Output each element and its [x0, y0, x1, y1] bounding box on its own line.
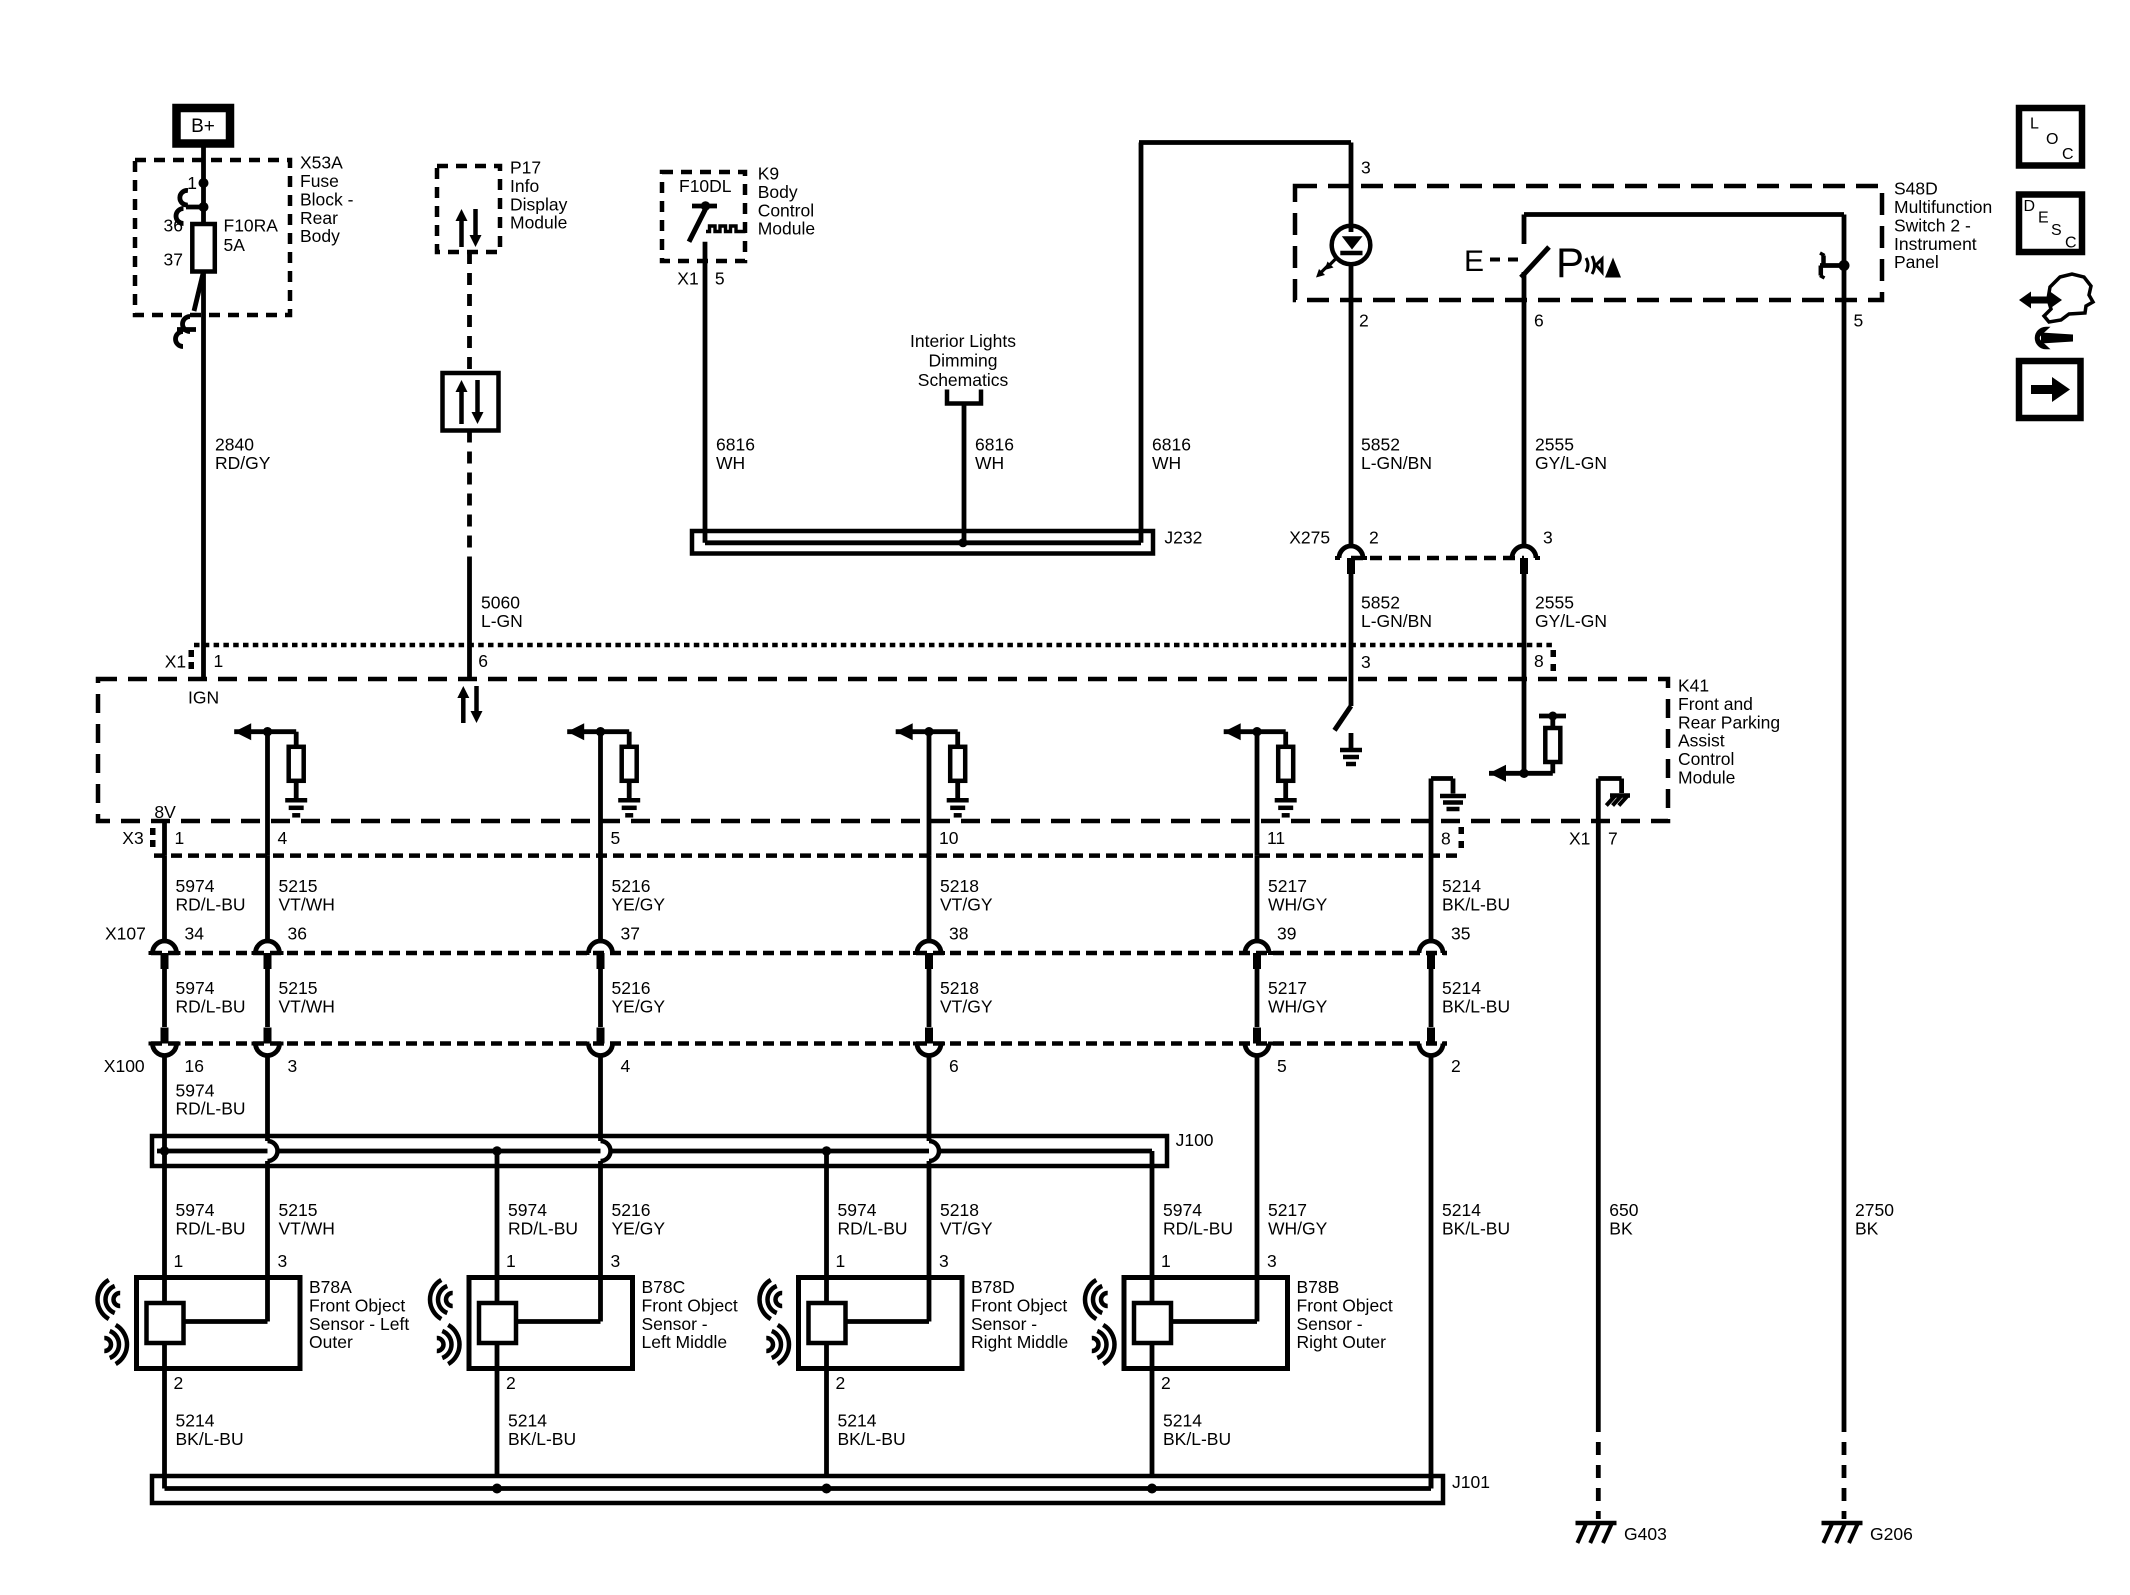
svg-text:Panel: Panel [1894, 252, 1939, 272]
svg-text:5214: 5214 [1163, 1410, 1202, 1430]
svg-text:Block -: Block - [300, 189, 354, 209]
svg-text:Body: Body [758, 182, 798, 202]
svg-text:VT/WH: VT/WH [279, 1218, 335, 1238]
svg-text:5: 5 [1277, 1056, 1287, 1076]
svg-text:Control: Control [758, 200, 814, 220]
svg-text:1: 1 [1161, 1251, 1171, 1271]
svg-text:BK: BK [1609, 1218, 1633, 1238]
svg-text:10: 10 [939, 828, 959, 848]
svg-text:X100: X100 [104, 1056, 145, 1076]
svg-text:3: 3 [1267, 1251, 1277, 1271]
svg-text:2555: 2555 [1535, 435, 1574, 455]
svg-text:1: 1 [214, 651, 224, 671]
svg-text:34: 34 [185, 923, 205, 943]
svg-text:Outer: Outer [309, 1332, 353, 1352]
svg-text:5215: 5215 [279, 1200, 318, 1220]
svg-text:RD/L-BU: RD/L-BU [176, 1099, 246, 1119]
svg-text:RD/L-BU: RD/L-BU [1163, 1218, 1233, 1238]
svg-text:B78A: B78A [309, 1277, 352, 1297]
svg-text:38: 38 [949, 923, 968, 943]
svg-text:39: 39 [1277, 923, 1296, 943]
svg-text:BK/L-BU: BK/L-BU [838, 1429, 906, 1449]
svg-text:5217: 5217 [1268, 876, 1307, 896]
svg-text:5214: 5214 [1442, 876, 1481, 896]
svg-text:Schematics: Schematics [918, 370, 1009, 390]
svg-text:5216: 5216 [612, 1200, 651, 1220]
svg-text:BK/L-BU: BK/L-BU [1163, 1429, 1231, 1449]
svg-text:L: L [2030, 116, 2039, 133]
svg-text:X1: X1 [165, 652, 186, 672]
svg-text:1: 1 [187, 173, 197, 193]
svg-text:B78C: B78C [642, 1277, 686, 1297]
svg-text:B78D: B78D [971, 1277, 1015, 1297]
svg-text:RD/L-BU: RD/L-BU [838, 1218, 908, 1238]
svg-text:5974: 5974 [1163, 1200, 1202, 1220]
svg-text:16: 16 [185, 1056, 204, 1076]
svg-text:F10DL: F10DL [679, 176, 732, 196]
svg-text:Right Middle: Right Middle [971, 1332, 1068, 1352]
svg-text:Assist: Assist [1678, 731, 1725, 751]
svg-text:Sensor -: Sensor - [642, 1314, 708, 1334]
svg-text:Right Outer: Right Outer [1297, 1332, 1387, 1352]
svg-text:S: S [2051, 222, 2062, 239]
svg-text:3: 3 [278, 1251, 288, 1271]
svg-text:5218: 5218 [940, 978, 979, 998]
svg-text:36: 36 [164, 215, 183, 235]
svg-text:RD/GY: RD/GY [215, 453, 271, 473]
svg-text:8V: 8V [154, 802, 176, 822]
svg-text:WH/GY: WH/GY [1268, 996, 1328, 1016]
svg-text:5974: 5974 [838, 1200, 877, 1220]
svg-text:4: 4 [621, 1056, 631, 1076]
svg-text:2555: 2555 [1535, 593, 1574, 613]
svg-text:RD/L-BU: RD/L-BU [176, 1218, 246, 1238]
svg-text:2: 2 [506, 1373, 516, 1393]
svg-text:WH: WH [975, 453, 1004, 473]
svg-text:F10RA: F10RA [224, 216, 279, 236]
svg-text:5060: 5060 [481, 593, 520, 613]
svg-text:S48D: S48D [1894, 179, 1938, 199]
svg-text:K9: K9 [758, 164, 779, 184]
svg-text:O: O [2046, 131, 2058, 148]
svg-text:E: E [2038, 210, 2049, 227]
svg-text:1: 1 [506, 1251, 516, 1271]
svg-text:X1: X1 [677, 268, 698, 288]
svg-text:L-GN/BN: L-GN/BN [1361, 611, 1432, 631]
svg-text:5216: 5216 [612, 978, 651, 998]
svg-text:Front Object: Front Object [1297, 1295, 1393, 1315]
svg-text:B+: B+ [191, 116, 215, 137]
svg-text:Multifunction: Multifunction [1894, 197, 1992, 217]
svg-text:Switch 2 -: Switch 2 - [1894, 215, 1971, 235]
svg-text:Control: Control [1678, 749, 1734, 769]
svg-text:4: 4 [278, 828, 288, 848]
svg-text:5214: 5214 [1442, 1200, 1481, 1220]
svg-text:2: 2 [1369, 528, 1379, 548]
svg-text:D: D [2024, 198, 2036, 215]
svg-text:Module: Module [1678, 768, 1735, 788]
svg-text:Sensor -: Sensor - [971, 1314, 1037, 1334]
svg-text:X1: X1 [1569, 829, 1590, 849]
svg-text:P: P [1556, 239, 1584, 286]
svg-text:Front Object: Front Object [971, 1295, 1067, 1315]
svg-text:VT/GY: VT/GY [940, 996, 993, 1016]
svg-text:5974: 5974 [176, 1080, 215, 1100]
svg-text:Instrument: Instrument [1894, 234, 1977, 254]
svg-text:P17: P17 [510, 158, 541, 178]
svg-text:BK: BK [1855, 1218, 1879, 1238]
svg-text:Interior Lights: Interior Lights [910, 331, 1016, 351]
svg-text:Info: Info [510, 176, 539, 196]
svg-text:5974: 5974 [176, 978, 215, 998]
svg-text:6: 6 [949, 1056, 959, 1076]
svg-text:3: 3 [1361, 652, 1371, 672]
svg-text:VT/WH: VT/WH [279, 996, 335, 1016]
svg-text:6: 6 [1534, 311, 1544, 331]
svg-text:WH/GY: WH/GY [1268, 894, 1328, 914]
svg-text:WH/GY: WH/GY [1268, 1218, 1328, 1238]
svg-text:6816: 6816 [975, 435, 1014, 455]
svg-text:VT/WH: VT/WH [279, 894, 335, 914]
svg-text:Body: Body [300, 226, 340, 246]
svg-text:YE/GY: YE/GY [612, 1218, 666, 1238]
svg-text:3: 3 [288, 1056, 298, 1076]
svg-text:Sensor -: Sensor - [1297, 1314, 1363, 1334]
svg-text:Rear: Rear [300, 208, 338, 228]
svg-text:8: 8 [1441, 828, 1451, 848]
svg-text:11: 11 [1267, 828, 1285, 848]
svg-text:1: 1 [174, 1251, 184, 1271]
svg-text:3: 3 [939, 1251, 949, 1271]
svg-text:RD/L-BU: RD/L-BU [508, 1218, 578, 1238]
svg-text:Left Middle: Left Middle [642, 1332, 728, 1352]
svg-text:5214: 5214 [508, 1410, 547, 1430]
svg-text:X107: X107 [105, 923, 146, 943]
svg-text:GY/L-GN: GY/L-GN [1535, 611, 1607, 631]
svg-text:Module: Module [510, 213, 567, 233]
svg-text:3: 3 [1543, 528, 1553, 548]
svg-text:2: 2 [1451, 1056, 1461, 1076]
svg-text:5217: 5217 [1268, 1200, 1307, 1220]
svg-text:37: 37 [164, 250, 183, 270]
svg-text:GY/L-GN: GY/L-GN [1535, 453, 1607, 473]
svg-text:2: 2 [174, 1373, 184, 1393]
svg-text:5214: 5214 [1442, 978, 1481, 998]
svg-text:Front and: Front and [1678, 694, 1753, 714]
svg-text:2750: 2750 [1855, 1200, 1894, 1220]
svg-text:Display: Display [510, 194, 568, 214]
svg-text:5: 5 [611, 828, 621, 848]
svg-text:BK/L-BU: BK/L-BU [508, 1429, 576, 1449]
svg-text:BK/L-BU: BK/L-BU [176, 1429, 244, 1449]
svg-text:Front Object: Front Object [642, 1295, 738, 1315]
svg-text:Fuse: Fuse [300, 171, 339, 191]
svg-text:Front Object: Front Object [309, 1295, 405, 1315]
svg-text:6816: 6816 [716, 435, 755, 455]
svg-text:8: 8 [1534, 651, 1544, 671]
svg-text:1: 1 [836, 1251, 846, 1271]
svg-text:5216: 5216 [612, 876, 651, 896]
svg-text:YE/GY: YE/GY [612, 894, 666, 914]
svg-text:Sensor - Left: Sensor - Left [309, 1314, 409, 1334]
svg-text:VT/GY: VT/GY [940, 1218, 993, 1238]
svg-text:5852: 5852 [1361, 435, 1400, 455]
svg-text:5214: 5214 [838, 1410, 877, 1430]
svg-text:IGN: IGN [188, 687, 219, 707]
svg-text:Dimming: Dimming [928, 351, 997, 371]
svg-text:3: 3 [1361, 158, 1371, 178]
svg-text:RD/L-BU: RD/L-BU [176, 996, 246, 1016]
svg-text:X53A: X53A [300, 153, 343, 173]
svg-text:5214: 5214 [176, 1410, 215, 1430]
svg-text:5974: 5974 [176, 876, 215, 896]
svg-text:2840: 2840 [215, 435, 254, 455]
svg-text:K41: K41 [1678, 676, 1709, 696]
svg-text:5A: 5A [224, 235, 246, 255]
svg-text:X275: X275 [1289, 528, 1330, 548]
svg-text:J100: J100 [1176, 1130, 1214, 1150]
svg-text:Module: Module [758, 219, 815, 239]
svg-text:L-GN: L-GN [481, 611, 523, 631]
svg-text:5218: 5218 [940, 876, 979, 896]
svg-text:C: C [2065, 235, 2077, 252]
svg-text:37: 37 [621, 923, 640, 943]
svg-text:1: 1 [175, 828, 185, 848]
svg-text:36: 36 [288, 923, 307, 943]
svg-text:L-GN/BN: L-GN/BN [1361, 453, 1432, 473]
svg-text:RD/L-BU: RD/L-BU [176, 894, 246, 914]
svg-text:BK/L-BU: BK/L-BU [1442, 996, 1510, 1016]
svg-text:BK/L-BU: BK/L-BU [1442, 1218, 1510, 1238]
svg-text:5: 5 [715, 268, 725, 288]
svg-text:2: 2 [1161, 1373, 1171, 1393]
svg-text:YE/GY: YE/GY [612, 996, 666, 1016]
svg-text:5215: 5215 [279, 978, 318, 998]
svg-text:WH: WH [1152, 453, 1181, 473]
svg-text:VT/GY: VT/GY [940, 894, 993, 914]
svg-text:G206: G206 [1870, 1524, 1913, 1544]
svg-text:E: E [1464, 245, 1484, 278]
svg-text:2: 2 [1359, 311, 1369, 331]
svg-text:BK/L-BU: BK/L-BU [1442, 894, 1510, 914]
svg-text:3: 3 [611, 1251, 621, 1271]
svg-text:5974: 5974 [176, 1200, 215, 1220]
svg-text:7: 7 [1608, 829, 1618, 849]
svg-text:5218: 5218 [940, 1200, 979, 1220]
svg-text:6816: 6816 [1152, 435, 1191, 455]
svg-text:650: 650 [1609, 1200, 1638, 1220]
svg-text:Rear Parking: Rear Parking [1678, 712, 1780, 732]
svg-text:2: 2 [836, 1373, 846, 1393]
svg-text:5852: 5852 [1361, 593, 1400, 613]
svg-text:35: 35 [1451, 923, 1470, 943]
svg-text:5217: 5217 [1268, 978, 1307, 998]
svg-text:WH: WH [716, 453, 745, 473]
svg-text:5: 5 [1854, 311, 1864, 331]
svg-text:X3: X3 [122, 828, 143, 848]
svg-text:J101: J101 [1452, 1472, 1490, 1492]
svg-text:5974: 5974 [508, 1200, 547, 1220]
svg-text:G403: G403 [1624, 1524, 1667, 1544]
svg-text:B78B: B78B [1297, 1277, 1340, 1297]
svg-text:5215: 5215 [279, 876, 318, 896]
svg-text:6: 6 [478, 651, 488, 671]
svg-text:J232: J232 [1164, 528, 1202, 548]
svg-text:C: C [2062, 146, 2074, 163]
